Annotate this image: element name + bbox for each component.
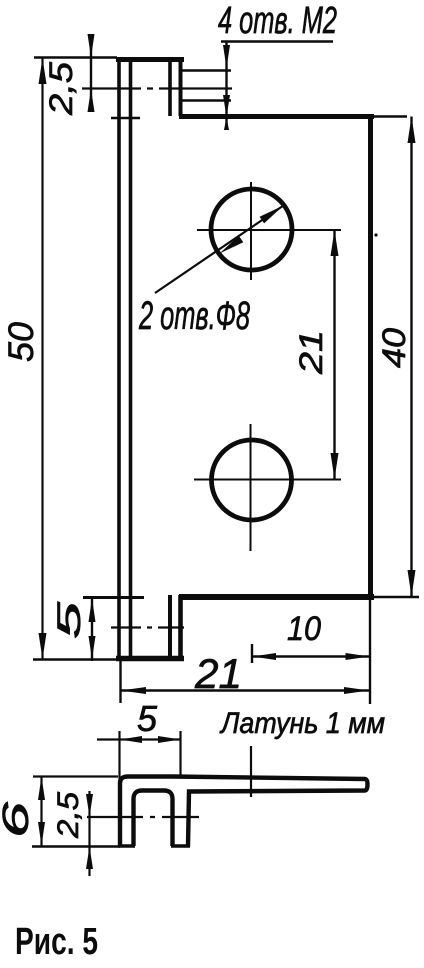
svg-text:5: 5 — [137, 698, 158, 739]
dim 2.5 arrow down — [88, 34, 95, 58]
dim 40 arrow down — [408, 570, 416, 597]
dim 5 side right extension — [179, 731, 181, 776]
side view centerline — [87, 816, 199, 818]
label Latun leader — [250, 746, 252, 797]
dim 6 arrow up — [38, 777, 45, 801]
main plate top edge — [179, 114, 374, 119]
svg-text:21: 21 — [293, 330, 329, 375]
dim 2.5 line — [90, 44, 92, 111]
bottom hole vertical centerline — [250, 424, 252, 551]
dim 5 side arrow right — [158, 736, 181, 743]
bottom hole horizontal centerline — [194, 479, 341, 481]
side view right leg tip — [171, 844, 190, 847]
dim 5 left arrow down — [89, 636, 96, 660]
dim 10 line — [251, 655, 371, 657]
svg-text:50: 50 — [2, 321, 41, 362]
dim 21 holes arrow down — [331, 453, 339, 479]
dim 6 top extension — [33, 775, 118, 777]
top hole horizontal centerline — [197, 229, 341, 231]
svg-text:21: 21 — [194, 650, 242, 697]
dim 2.5 side arrow up — [86, 847, 93, 870]
side view inner outline — [134, 791, 173, 847]
dim 50 arrow up — [39, 58, 47, 84]
dim 10 arrow left — [252, 653, 276, 660]
side view outer outline — [120, 777, 368, 847]
F8 arrow SW — [220, 236, 244, 254]
dim 21 bottom arrow left — [121, 687, 146, 694]
F8 leader line — [155, 206, 284, 294]
dim 21 holes arrow up — [331, 230, 339, 256]
dim 40 bottom extension — [374, 596, 419, 598]
svg-text:6: 6 — [0, 800, 36, 838]
M2 leader arrow down 2 — [223, 95, 230, 117]
dim 50 line — [41, 58, 43, 659]
M2 hole upper edge — [182, 69, 231, 72]
bottom hole circle — [212, 440, 292, 520]
speckle dot — [374, 233, 377, 236]
dim 5 side left extension — [118, 731, 120, 783]
plate top edge through channel — [111, 117, 140, 120]
side view left leg tip — [118, 844, 135, 847]
right wall top outer line — [168, 58, 172, 116]
dim 2.5 arrow up — [88, 89, 95, 112]
svg-text:10: 10 — [287, 610, 321, 648]
right wall bottom outer line — [168, 595, 172, 658]
dim 21 bottom left extension — [119, 661, 121, 703]
svg-text:2,5: 2,5 — [43, 62, 79, 116]
label 4 otv. M2 leader vertical — [225, 42, 227, 129]
svg-text:2 отв.Ф8: 2 отв.Ф8 — [138, 294, 250, 338]
svg-text:4 отв. М2: 4 отв. М2 — [218, 0, 337, 42]
F8 arrow NE — [260, 206, 284, 224]
left wall outer line — [117, 57, 121, 659]
dim 40 top extension — [374, 115, 407, 117]
dim 5 left line — [91, 597, 93, 661]
M2 leader arrow up small — [224, 117, 229, 130]
svg-text:2,5: 2,5 — [52, 792, 85, 839]
svg-text:Латунь 1 мм: Латунь 1 мм — [219, 707, 385, 740]
M2 hole lower edge — [182, 99, 231, 102]
dim 6 line — [40, 777, 42, 847]
plate bottom edge — [179, 594, 374, 600]
dim 5 side arrow left — [120, 736, 143, 743]
dim 2.5 side line — [88, 791, 90, 876]
U-channel top edge — [116, 57, 184, 62]
label 4 otv. M2 leader underline — [221, 40, 333, 42]
top hole vertical centerline — [250, 182, 252, 280]
dim 10 extension (hole center) — [251, 644, 253, 663]
plate right edge — [368, 114, 373, 599]
dim 40 line — [410, 117, 412, 597]
dim 10 arrow right — [346, 653, 370, 660]
svg-text:40: 40 — [376, 328, 412, 368]
dim 21 holes line — [333, 230, 335, 479]
dim 6 bottom extension — [32, 845, 120, 847]
left wall inner line — [129, 57, 133, 659]
dim 21 bottom right extension — [369, 600, 371, 704]
svg-text:Рис. 5: Рис. 5 — [15, 921, 98, 963]
dim 21 bottom line — [121, 689, 371, 691]
dim 21 bottom arrow right — [344, 687, 369, 694]
M2 leader arrow down 1 — [223, 45, 230, 68]
M2 top centerline — [82, 87, 232, 89]
right wall top inner line — [179, 58, 183, 116]
plate bottom edge through channel — [83, 596, 144, 599]
dim 2.5 extension line (top edge, left) — [34, 56, 117, 58]
dim 50 bottom extension line — [33, 658, 117, 660]
M2 bottom centerline — [111, 626, 184, 628]
U-channel bottom edge — [116, 656, 184, 662]
dim 5 left arrow up — [89, 598, 96, 622]
right wall bottom inner line — [178, 595, 183, 658]
dim 6 arrow down — [38, 822, 45, 846]
dim 40 arrow up — [408, 117, 416, 144]
svg-text:5: 5 — [51, 602, 87, 639]
dim 50 arrow down — [39, 633, 47, 659]
top hole circle — [211, 189, 292, 270]
dim 5 side line — [97, 738, 181, 740]
dim 2.5 side arrow down — [86, 794, 93, 817]
